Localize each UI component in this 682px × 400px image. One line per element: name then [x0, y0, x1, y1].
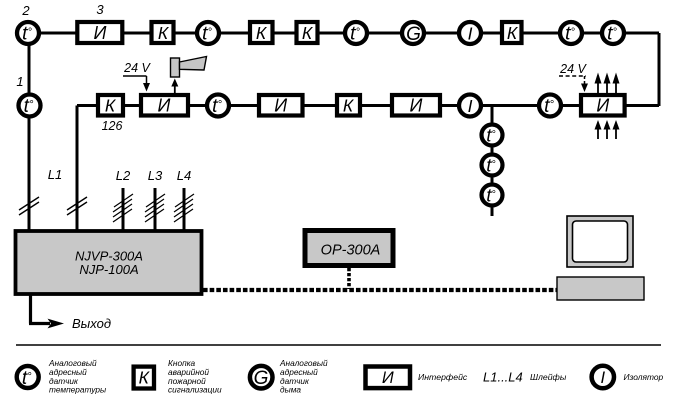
wire second row horizontal	[77, 104, 659, 107]
svg-text:К: К	[507, 23, 519, 43]
sensor t6	[207, 95, 229, 118]
svg-text:1: 1	[16, 74, 23, 89]
svg-text:И: И	[382, 369, 394, 387]
output arrows above U5	[595, 73, 620, 94]
sensor t8 branch	[482, 125, 503, 146]
svg-text:Шлейфы: Шлейфы	[530, 372, 567, 382]
wire right vertical	[658, 33, 661, 106]
legend smoke sensor text	[279, 358, 328, 395]
svg-text:126: 126	[102, 119, 123, 133]
cable marks on left loop wire	[19, 197, 39, 215]
sounder horn above U2	[171, 57, 207, 94]
cable marks on L4 wire	[174, 194, 194, 222]
svg-text:Интерфейс: Интерфейс	[418, 372, 468, 382]
svg-text:И: И	[410, 96, 423, 116]
sensor t5	[602, 22, 624, 45]
wire L1 vertical to panel	[76, 106, 79, 231]
svg-text:И: И	[158, 96, 171, 116]
24V supply label right	[559, 62, 588, 92]
legend call point symbol	[134, 367, 154, 389]
wire L3 stub	[154, 188, 157, 230]
wire left vertical from sensor 2 through sensor 1 to panel	[28, 33, 31, 230]
sensor t1 (heat detector, top-left, addr 2)	[17, 22, 39, 45]
call point K3	[297, 22, 318, 43]
sensor t9 branch	[482, 155, 503, 176]
svg-text:I: I	[601, 369, 606, 387]
sensor t2	[197, 22, 219, 45]
wire L2 stub	[122, 188, 125, 230]
call point K2	[250, 22, 273, 43]
svg-text:сигнализации: сигнализации	[168, 385, 222, 395]
legend heat sensor symbol	[17, 366, 39, 389]
sensor t4	[560, 22, 582, 45]
sensor t0 (heat detector, addr 1, on left drop)	[19, 95, 41, 118]
svg-text:3: 3	[96, 2, 104, 17]
svg-text:L1: L1	[48, 167, 62, 182]
wire L4 stub	[183, 188, 186, 230]
svg-text:К: К	[302, 23, 314, 43]
legend heat sensor text	[48, 358, 106, 395]
output wire with arrow	[29, 295, 64, 328]
input arrows below U5	[595, 120, 620, 139]
svg-text:I: I	[468, 96, 473, 116]
isolator I1	[459, 22, 481, 44]
legend smoke sensor symbol	[250, 366, 273, 389]
legend call point text	[168, 358, 222, 395]
interface U1	[77, 22, 122, 43]
interface U2	[141, 95, 188, 116]
svg-text:К: К	[256, 23, 268, 43]
svg-text:К: К	[105, 96, 117, 116]
24V supply label left	[123, 61, 152, 92]
interface U4	[392, 95, 440, 116]
legend isolator symbol	[592, 366, 614, 388]
legend interface symbol	[366, 367, 411, 389]
interface U5	[581, 95, 625, 116]
svg-text:дыма: дыма	[280, 385, 301, 395]
sensor t10 branch	[482, 185, 503, 206]
wire top loop horizontal	[28, 32, 659, 35]
interface U3	[259, 95, 303, 116]
svg-text:L2: L2	[116, 168, 131, 183]
svg-text:И: И	[274, 96, 287, 116]
svg-text:Изолятор: Изолятор	[624, 372, 664, 382]
svg-text:G: G	[406, 24, 421, 45]
sensor t3	[345, 22, 367, 45]
dashed data bus	[203, 288, 557, 292]
svg-text:К: К	[139, 368, 151, 388]
svg-text:Выход: Выход	[72, 316, 111, 331]
isolator I2	[459, 95, 481, 117]
svg-text:L4: L4	[177, 168, 191, 183]
wire branch down from node after isolator	[491, 106, 494, 217]
svg-text:L1...L4: L1...L4	[483, 370, 523, 385]
sensor t7	[539, 95, 561, 118]
svg-text:L3: L3	[148, 168, 163, 183]
call point K6	[337, 95, 360, 116]
svg-text:К: К	[158, 23, 170, 43]
cable marks on L2 wire	[113, 194, 133, 222]
call point K5 addr 126	[98, 95, 123, 116]
svg-text:I: I	[468, 24, 473, 44]
svg-text:24 V: 24 V	[559, 62, 587, 76]
computer system unit	[557, 277, 644, 300]
dashed drop from OP-300A	[347, 268, 351, 289]
cable marks on L3 wire	[145, 194, 165, 222]
call point K4	[502, 22, 522, 43]
svg-text:К: К	[343, 96, 355, 116]
smoke detector G1	[402, 22, 424, 45]
legend separator	[16, 344, 661, 346]
svg-text:И: И	[94, 23, 107, 43]
svg-text:NJP-100A: NJP-100A	[79, 262, 138, 277]
svg-text:И: И	[596, 96, 609, 116]
control panel NJVP-300A / NJP-100A	[16, 231, 202, 294]
svg-text:температуры: температуры	[49, 385, 106, 395]
cable marks on L1 wire	[67, 197, 87, 215]
svg-text:OP-300A: OP-300A	[321, 243, 381, 259]
svg-text:24 V: 24 V	[123, 61, 151, 75]
repeater panel OP-300A	[305, 231, 393, 266]
computer monitor	[567, 216, 633, 267]
call point K1	[152, 22, 174, 43]
svg-text:G: G	[254, 368, 269, 389]
svg-text:2: 2	[21, 3, 30, 18]
